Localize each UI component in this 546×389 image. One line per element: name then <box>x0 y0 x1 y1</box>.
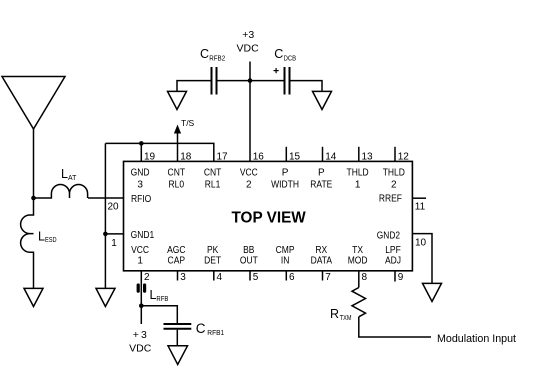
wire pin 14 stub <box>322 147 324 162</box>
wire pin 13 stub <box>358 147 360 162</box>
wire CDCB right plate to ground <box>290 81 323 92</box>
wire CRFB1 to ground <box>176 330 178 346</box>
wire pin 8 TX MOD to resistor <box>358 271 360 288</box>
svg-text:CNT: CNT <box>168 168 186 179</box>
svg-text:DET: DET <box>204 255 221 266</box>
svg-text:Modulation Input: Modulation Input <box>437 333 516 345</box>
wire pin 9 stub <box>394 271 396 282</box>
svg-text:VCC: VCC <box>240 168 258 179</box>
svg-text:L: L <box>61 167 68 181</box>
svg-text:R: R <box>330 307 339 321</box>
svg-text:RL1: RL1 <box>205 180 221 191</box>
svg-text:2: 2 <box>391 180 397 191</box>
inductor LRFB (bead bars) <box>137 284 147 293</box>
node E junction dot <box>139 304 144 309</box>
svg-text:GND: GND <box>131 168 150 179</box>
svg-text:THLD: THLD <box>383 168 405 179</box>
svg-text:2: 2 <box>144 272 150 283</box>
svg-text:15: 15 <box>289 152 301 163</box>
wire pin 15 stub <box>285 147 287 162</box>
label +3 VDC (top supply) <box>237 29 260 55</box>
svg-text:9: 9 <box>398 272 404 283</box>
svg-text:P: P <box>282 168 289 179</box>
svg-text:AT: AT <box>68 175 77 182</box>
svg-text:RFIO: RFIO <box>131 194 151 205</box>
svg-text:5: 5 <box>253 272 259 283</box>
ground (under CRFB1) <box>168 346 188 365</box>
wire pin 4 stub <box>213 271 215 281</box>
label LAT <box>61 167 77 182</box>
ground (pin 10 GND2) <box>423 283 442 301</box>
label RTXM <box>330 307 352 322</box>
ground (right of CDCB) <box>313 91 332 109</box>
label pin numbers bottom row <box>144 272 404 283</box>
svg-text:RATE: RATE <box>310 180 332 191</box>
wire pin 6 stub <box>285 271 287 281</box>
svg-text:12: 12 <box>398 152 410 163</box>
label pin numbers top row <box>144 152 409 163</box>
svg-text:2: 2 <box>246 180 252 191</box>
svg-text:3: 3 <box>137 180 143 191</box>
svg-text:11: 11 <box>415 202 426 213</box>
capacitor CRFB2 <box>212 67 217 95</box>
label IC top row pin names <box>131 168 405 191</box>
label pin numbers sides <box>107 202 426 249</box>
svg-text:WIDTH: WIDTH <box>271 180 299 191</box>
svg-text:17: 17 <box>217 152 229 163</box>
label IC side pin names <box>131 194 402 242</box>
antenna ANT1 <box>2 77 65 130</box>
wire pin 10 GND2 to ground <box>412 234 432 284</box>
label CRFB2 <box>200 47 225 63</box>
svg-text:L: L <box>38 229 45 243</box>
svg-text:C: C <box>200 47 209 61</box>
wire antenna to node A <box>33 129 35 198</box>
svg-text:13: 13 <box>362 152 374 163</box>
wire pin 5 stub <box>249 271 251 281</box>
label LESD <box>38 229 57 244</box>
T/S arrowhead <box>174 125 181 134</box>
svg-text:18: 18 <box>180 152 192 163</box>
wire CRFB2 right plate to node D <box>217 80 251 82</box>
wire resistor to modulation input <box>359 317 431 337</box>
svg-text:OUT: OUT <box>240 255 258 266</box>
svg-text:3: 3 <box>180 272 186 283</box>
svg-text:C: C <box>196 321 206 336</box>
svg-text:20: 20 <box>107 202 119 213</box>
wire pin 12 stub <box>394 147 396 162</box>
svg-text:CNT: CNT <box>204 168 222 179</box>
svg-text:7: 7 <box>325 272 331 283</box>
svg-text:10: 10 <box>415 238 427 249</box>
svg-text:VDC: VDC <box>129 342 152 354</box>
wire pin 3 stub <box>177 271 179 281</box>
wire pin 7 stub <box>322 271 324 281</box>
svg-text:8: 8 <box>362 272 368 283</box>
wire pin 19 stub <box>140 143 142 161</box>
svg-text:GND1: GND1 <box>131 230 155 241</box>
wire vertical ground bus left of IC <box>104 143 106 288</box>
wire CRFB2 left plate to ground <box>177 81 212 92</box>
wire +3 VDC supply to pin 16 <box>249 62 251 162</box>
svg-text:GND2: GND2 <box>377 231 401 242</box>
svg-text:TOP VIEW: TOP VIEW <box>232 209 307 226</box>
svg-text:6: 6 <box>289 272 295 283</box>
svg-text:4: 4 <box>217 272 223 283</box>
svg-text:CAP: CAP <box>168 255 186 266</box>
wire pin 11 RREF stub <box>412 197 426 199</box>
svg-text:DCB: DCB <box>284 56 297 63</box>
svg-text:19: 19 <box>144 152 156 163</box>
inductor LESD <box>21 198 34 253</box>
svg-text:RREF: RREF <box>379 194 402 205</box>
label LRFB <box>150 288 169 303</box>
inductor LAT <box>34 185 88 198</box>
node A junction dot <box>31 196 36 201</box>
svg-text:ADJ: ADJ <box>385 255 401 266</box>
svg-text:P: P <box>318 168 325 179</box>
label CRFB1 <box>196 321 224 337</box>
svg-text:RL0: RL0 <box>169 180 185 191</box>
svg-text:RFB2: RFB2 <box>209 56 225 63</box>
wire node E to +3 VDC label <box>140 306 142 324</box>
IC body U1 TOP VIEW <box>124 161 413 270</box>
svg-text:RFB: RFB <box>156 296 168 303</box>
svg-text:+3: +3 <box>242 29 254 41</box>
svg-text:1: 1 <box>111 238 117 249</box>
svg-text:VDC: VDC <box>237 43 260 55</box>
capacitor CDCB (polarized) <box>285 67 290 95</box>
node D junction dot (decoupling tap) <box>248 78 253 83</box>
svg-text:16: 16 <box>253 152 265 163</box>
svg-text:C: C <box>274 47 283 61</box>
node B junction dot (pin 1 wire) <box>103 232 108 237</box>
svg-text:TXM: TXM <box>340 315 352 322</box>
svg-text:+ 3: + 3 <box>133 329 147 341</box>
resistor RTXM <box>352 288 366 317</box>
svg-text:THLD: THLD <box>347 168 369 179</box>
svg-text:ESD: ESD <box>45 237 57 244</box>
wire LESD to ground <box>33 253 35 289</box>
wire LAT to pin 20 RFIO <box>88 197 124 199</box>
wire node E to CRFB1 <box>141 306 177 323</box>
capacitor CRFB1 <box>164 324 192 329</box>
svg-text:IN: IN <box>281 255 290 266</box>
label +3 VDC (bottom supply) <box>129 329 152 355</box>
wire node D to CDCB <box>250 80 285 82</box>
CDCB plus sign <box>274 68 279 73</box>
svg-text:MOD: MOD <box>348 255 368 266</box>
svg-text:RFB1: RFB1 <box>207 330 224 337</box>
label IC bottom row pin names <box>131 245 401 266</box>
ground (left of CRFB2) <box>168 91 187 109</box>
wire pin 18 with T/S arrow stem <box>177 131 179 161</box>
wire pin 1 GND1 <box>105 233 123 235</box>
svg-text:T/S: T/S <box>181 118 195 128</box>
svg-text:1: 1 <box>355 180 361 191</box>
ground (under LESD) <box>24 288 43 306</box>
label CDCB <box>274 47 296 63</box>
ground (left of IC) <box>96 288 115 306</box>
wire pin 2 VCC1 down <box>140 271 142 306</box>
svg-text:14: 14 <box>325 152 337 163</box>
node C junction dot (pin 19 on bus) <box>139 141 144 146</box>
svg-text:1: 1 <box>137 255 143 266</box>
svg-text:DATA: DATA <box>311 255 333 266</box>
wire top bus (pins 19,18,17) <box>105 143 213 161</box>
